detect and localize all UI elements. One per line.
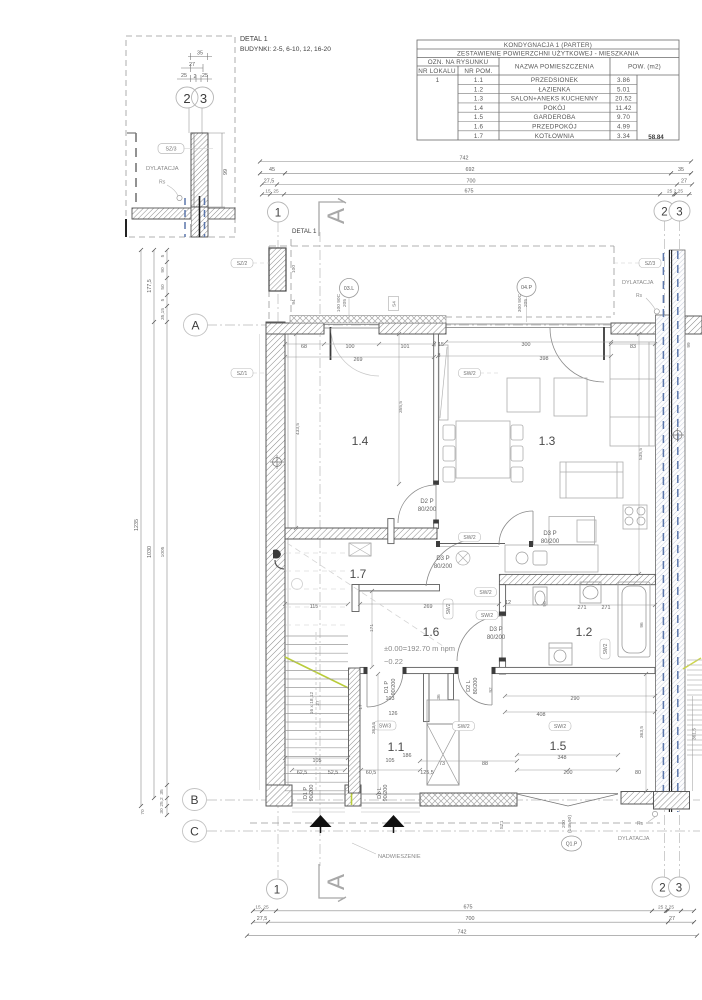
svg-text:ZESTAWIENIE POWIERZCHNI UŻYTKO: ZESTAWIENIE POWIERZCHNI UŻYTKOWEJ - MIES… [457, 49, 640, 58]
svg-text:96: 96 [639, 622, 645, 628]
svg-text:9.70: 9.70 [617, 114, 630, 121]
svg-text:KONDYGNACJA 1 (PARTER): KONDYGNACJA 1 (PARTER) [504, 42, 592, 49]
svg-text:27: 27 [315, 700, 321, 706]
svg-text:5: 5 [160, 298, 166, 301]
svg-text:269: 269 [424, 604, 433, 610]
svg-text:80/200: 80/200 [418, 507, 437, 513]
svg-text:POKÓJ: POKÓJ [543, 103, 565, 112]
svg-text:62,5: 62,5 [297, 770, 308, 776]
svg-text:2: 2 [183, 91, 190, 106]
svg-text:D3 P: D3 P [543, 531, 556, 537]
svg-text:90/200: 90/200 [391, 679, 397, 696]
svg-text:NR LOKALU: NR LOKALU [418, 68, 456, 75]
svg-text:SW/2: SW/2 [554, 724, 566, 730]
svg-text:SW/3: SW/3 [379, 724, 391, 730]
svg-text:126: 126 [389, 711, 398, 717]
svg-text:90: 90 [160, 267, 166, 273]
svg-text:3: 3 [676, 207, 682, 219]
svg-text:POW. (m2): POW. (m2) [628, 64, 661, 71]
svg-text:−0.22: −0.22 [384, 657, 403, 666]
svg-text:269: 269 [354, 357, 363, 363]
svg-text:73: 73 [439, 761, 445, 767]
svg-text:ŁAZIENKA: ŁAZIENKA [538, 86, 571, 93]
svg-text:1.6: 1.6 [423, 625, 440, 639]
svg-text:177,5: 177,5 [147, 279, 153, 293]
svg-text:90/200: 90/200 [309, 785, 315, 802]
svg-text:742: 742 [460, 156, 469, 162]
svg-text:3: 3 [676, 883, 682, 895]
svg-text:700: 700 [467, 179, 476, 185]
svg-text:103: 103 [386, 696, 395, 702]
svg-text:D3 P: D3 P [489, 627, 502, 633]
svg-text:SW2: SW2 [603, 643, 609, 654]
svg-text:PRZEDSIONEK: PRZEDSIONEK [531, 77, 579, 84]
svg-text:3.86: 3.86 [617, 77, 630, 84]
svg-text:S4: S4 [392, 301, 398, 307]
svg-text:36: 36 [436, 694, 442, 700]
svg-text:SW/2: SW/2 [481, 613, 493, 619]
svg-text:30: 30 [159, 808, 165, 814]
svg-text:16 x 18,12: 16 x 18,12 [309, 691, 315, 714]
svg-text:271: 271 [602, 605, 611, 611]
svg-text:1.5: 1.5 [550, 739, 567, 753]
svg-text:205: 205 [342, 299, 348, 307]
svg-text:80/200: 80/200 [541, 539, 560, 545]
svg-text:27,5: 27,5 [264, 179, 275, 185]
svg-text:68: 68 [301, 344, 307, 350]
svg-text:SW/2: SW/2 [479, 590, 491, 596]
svg-text:35: 35 [678, 167, 684, 173]
svg-text:NR POM.: NR POM. [464, 68, 492, 75]
svg-text:27: 27 [189, 62, 195, 68]
svg-text:25,2: 25,2 [159, 797, 165, 807]
svg-text:58.84: 58.84 [648, 134, 664, 141]
svg-text:KOTŁOWNIA: KOTŁOWNIA [535, 133, 575, 140]
svg-text:DETAL 1: DETAL 1 [240, 36, 268, 43]
svg-text:25 2 25: 25 2 25 [667, 189, 683, 195]
svg-text:271: 271 [578, 605, 587, 611]
svg-text:A: A [323, 874, 350, 890]
svg-text:398: 398 [540, 356, 549, 362]
svg-text:SW/2: SW/2 [463, 371, 475, 377]
svg-text:348: 348 [558, 755, 567, 761]
svg-text:1005: 1005 [160, 546, 166, 557]
svg-text:2: 2 [659, 883, 665, 895]
svg-text:NADWIESZENIE: NADWIESZENIE [378, 854, 421, 860]
svg-text:(146,90): (146,90) [567, 815, 573, 833]
svg-text:1.3: 1.3 [474, 96, 484, 103]
svg-text:A: A [191, 319, 199, 333]
svg-text:A: A [323, 208, 350, 224]
svg-text:205: 205 [523, 299, 529, 307]
svg-text:100: 100 [346, 344, 355, 350]
svg-text:105: 105 [386, 758, 395, 764]
svg-text:1.2: 1.2 [474, 86, 484, 93]
svg-text:Rs: Rs [637, 821, 644, 827]
svg-text:Q1.P: Q1.P [566, 842, 578, 848]
svg-text:88: 88 [482, 761, 488, 767]
svg-text:1.4: 1.4 [474, 105, 484, 112]
svg-text:OZN. NA RYSUNKU: OZN. NA RYSUNKU [428, 59, 489, 66]
svg-text:SZ1: SZ1 [499, 820, 505, 829]
svg-text:125,5: 125,5 [420, 770, 434, 776]
svg-text:B: B [190, 793, 198, 807]
svg-text:1.3: 1.3 [539, 434, 556, 448]
svg-text:±0.00=192.70 m npm: ±0.00=192.70 m npm [384, 644, 455, 653]
svg-text:NAZWA POMIESZCZENIA: NAZWA POMIESZCZENIA [515, 64, 595, 71]
svg-text:D2 L: D2 L [466, 680, 472, 692]
svg-text:200: 200 [564, 770, 573, 776]
svg-text:DYLATACJA: DYLATACJA [622, 280, 654, 286]
svg-text:27,5: 27,5 [257, 916, 268, 922]
svg-text:11.42: 11.42 [615, 105, 632, 112]
svg-text:700: 700 [466, 916, 475, 922]
svg-text:1: 1 [274, 885, 280, 897]
svg-text:45: 45 [269, 167, 275, 173]
svg-text:1.2: 1.2 [576, 625, 593, 639]
svg-text:SZ/1: SZ/1 [237, 371, 248, 377]
svg-text:DYLATACJA: DYLATACJA [146, 166, 179, 172]
svg-text:363,5: 363,5 [371, 722, 377, 734]
svg-text:290: 290 [571, 696, 580, 702]
svg-text:17: 17 [358, 704, 364, 710]
svg-text:4.99: 4.99 [617, 124, 630, 131]
svg-text:80/200: 80/200 [487, 635, 506, 641]
svg-text:35: 35 [197, 51, 203, 57]
svg-text:DETAL 1: DETAL 1 [292, 228, 317, 235]
svg-text:BUDYNKI: 2-5, 6-10, 12, 16-20: BUDYNKI: 2-5, 6-10, 12, 16-20 [240, 46, 331, 53]
svg-text:20.52: 20.52 [615, 96, 632, 103]
svg-text:D1 P: D1 P [384, 681, 390, 694]
svg-text:25: 25 [202, 73, 208, 79]
svg-text:363,5: 363,5 [639, 726, 645, 738]
svg-text:70: 70 [140, 809, 146, 815]
svg-text:100: 100 [291, 265, 297, 273]
svg-text:80/200: 80/200 [434, 564, 453, 570]
svg-text:186: 186 [403, 753, 412, 759]
svg-text:2: 2 [194, 74, 197, 80]
svg-text:5: 5 [160, 254, 166, 257]
svg-text:1.5: 1.5 [474, 114, 484, 121]
svg-text:2: 2 [661, 207, 667, 219]
svg-text:83: 83 [630, 344, 636, 350]
svg-text:C: C [190, 825, 199, 839]
svg-text:Rs: Rs [159, 180, 166, 186]
svg-text:1.7: 1.7 [350, 567, 367, 581]
svg-text:1030: 1030 [147, 546, 153, 558]
svg-text:15, 25: 15, 25 [255, 905, 269, 911]
svg-text:100 90C: 100 90C [336, 293, 342, 312]
svg-text:27: 27 [669, 916, 675, 922]
svg-text:SW/2: SW/2 [463, 535, 475, 541]
svg-text:1.1: 1.1 [388, 740, 405, 754]
svg-text:3: 3 [200, 91, 207, 106]
svg-text:675: 675 [465, 189, 474, 195]
svg-text:90/200: 90/200 [383, 785, 389, 802]
svg-text:25: 25 [181, 73, 187, 79]
svg-text:35,15: 35,15 [160, 308, 166, 320]
svg-text:Rs: Rs [636, 293, 643, 299]
svg-text:742: 742 [458, 930, 467, 936]
svg-text:80: 80 [635, 770, 641, 776]
svg-text:99: 99 [686, 342, 692, 348]
svg-text:99: 99 [223, 169, 229, 175]
svg-text:96: 96 [542, 601, 548, 607]
svg-text:92: 92 [488, 687, 494, 693]
svg-text:03.L: 03.L [344, 286, 355, 292]
svg-text:35: 35 [159, 789, 165, 795]
svg-text:3.34: 3.34 [617, 133, 630, 140]
svg-text:52,5: 52,5 [328, 770, 339, 776]
svg-text:300: 300 [522, 342, 531, 348]
svg-text:04.P: 04.P [521, 285, 532, 291]
svg-text:GARDEROBA: GARDEROBA [533, 114, 576, 121]
svg-text:27: 27 [681, 179, 687, 185]
svg-text:15: 15 [438, 342, 444, 348]
svg-text:200: 200 [561, 820, 567, 828]
svg-text:675: 675 [464, 905, 473, 911]
svg-text:15, 25: 15, 25 [265, 189, 279, 195]
svg-text:94: 94 [291, 299, 297, 305]
svg-text:SZ/2: SZ/2 [237, 261, 248, 267]
svg-text:1.7: 1.7 [474, 133, 484, 140]
svg-text:105: 105 [313, 758, 322, 764]
svg-text:1.4: 1.4 [352, 434, 369, 448]
svg-text:SZ/3: SZ/3 [166, 147, 177, 153]
svg-text:SALON+ANEKS KUCHENNY: SALON+ANEKS KUCHENNY [511, 96, 599, 103]
svg-text:80/200: 80/200 [473, 678, 479, 695]
svg-text:1235: 1235 [134, 519, 140, 531]
svg-text:SW2: SW2 [446, 603, 452, 614]
svg-text:101: 101 [401, 344, 410, 350]
svg-text:DYLATACJA: DYLATACJA [618, 836, 650, 842]
svg-text:300 90C: 300 90C [517, 293, 523, 312]
svg-text:D2 P: D2 P [420, 499, 433, 505]
svg-text:1: 1 [436, 77, 440, 84]
svg-text:D3 P: D3 P [436, 556, 449, 562]
svg-text:SZ/3: SZ/3 [645, 261, 656, 267]
svg-text:SW/2: SW/2 [457, 724, 469, 730]
svg-text:692: 692 [466, 167, 475, 173]
svg-text:1.6: 1.6 [474, 124, 484, 131]
svg-text:1: 1 [275, 208, 281, 220]
svg-text:1.1: 1.1 [474, 77, 484, 84]
svg-text:361,5: 361,5 [692, 728, 698, 740]
svg-text:25 2 25: 25 2 25 [658, 905, 674, 911]
svg-text:408: 408 [537, 712, 546, 718]
svg-text:PRZEDPOKÓJ: PRZEDPOKÓJ [532, 122, 577, 131]
svg-text:50: 50 [160, 284, 166, 290]
svg-text:5.01: 5.01 [617, 86, 630, 93]
svg-text:60,5: 60,5 [366, 770, 377, 776]
